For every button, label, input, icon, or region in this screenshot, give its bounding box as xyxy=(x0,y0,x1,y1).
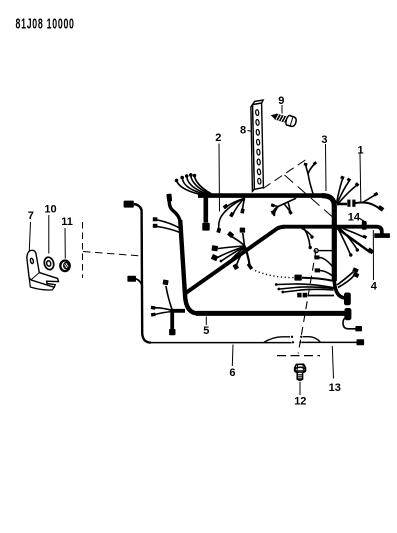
slotted strap 8 xyxy=(251,100,264,191)
two arc wires to stacked connectors right of vertical xyxy=(337,272,354,286)
arrow 14 xyxy=(360,219,365,223)
connector on second bar (14) xyxy=(362,221,367,230)
dash-dot vertical near parts xyxy=(82,222,84,278)
diagonal harness branch xyxy=(185,227,285,294)
bottom thin wire (6 / 13) xyxy=(150,341,357,343)
fan F8 below second bar xyxy=(338,229,371,254)
svg-text:10: 10 xyxy=(44,204,56,216)
fan F1 at left end of top bar xyxy=(177,176,211,195)
tab wire 2 left of vertical xyxy=(320,271,333,277)
connector at harness end (4) xyxy=(344,293,351,306)
two stub wires into left vertical xyxy=(158,220,182,229)
svg-text:81J08 10000: 81J08 10000 xyxy=(16,15,75,32)
dot fan under second bar left of vertical xyxy=(302,229,312,237)
label 13 xyxy=(332,346,333,379)
tab wire 1 left of vertical xyxy=(319,258,333,267)
bracket 7 xyxy=(27,250,59,290)
three thin wires left of vertical base xyxy=(278,284,334,288)
dashed line B down to harness xyxy=(285,175,333,217)
fan F4 at top right corner xyxy=(337,180,357,205)
leader 8 xyxy=(248,131,253,132)
label 12 xyxy=(299,382,301,395)
svg-text:7: 7 xyxy=(28,210,34,222)
leader 2 xyxy=(218,144,221,212)
svg-text:4: 4 xyxy=(371,280,378,292)
dotted curve xyxy=(254,270,294,278)
connector at right end of wire 13 xyxy=(357,339,365,345)
dashed line A bracket to harness xyxy=(263,158,309,189)
svg-text:11: 11 xyxy=(61,216,73,228)
fan F5 on diagonal branch xyxy=(218,234,246,266)
svg-text:3: 3 xyxy=(321,134,327,146)
left vertical branch down to lower bar xyxy=(180,220,198,313)
curve into connector 4 xyxy=(334,278,346,298)
curve from junction to dotted wire xyxy=(245,247,250,267)
T terminal at bar end xyxy=(374,233,390,238)
svg-text:12: 12 xyxy=(294,396,306,408)
washer 10 xyxy=(43,256,55,270)
corner and right vertical of main harness xyxy=(322,196,334,281)
bolt 12 xyxy=(295,364,306,380)
drop wire and connector below top bar left end xyxy=(204,197,209,223)
ring terminal wire left of vertical xyxy=(319,250,335,252)
small fan F4b rising from top bar xyxy=(306,164,315,194)
dash horizontal to harness xyxy=(83,252,142,257)
fan F2 under top bar xyxy=(219,199,245,230)
dash row above bolt xyxy=(277,355,320,357)
svg-text:1: 1 xyxy=(358,144,364,156)
connector feeding harness branch (2) xyxy=(166,194,172,202)
wire from dotted curve into vertical xyxy=(302,278,334,281)
leader 3 xyxy=(325,144,328,191)
svg-text:5: 5 xyxy=(203,325,209,337)
small wire from lower-bar connector xyxy=(343,318,356,329)
svg-text:13: 13 xyxy=(329,382,341,394)
leader 9 xyxy=(281,105,283,114)
dashed leader from hump to bolt 12 xyxy=(298,250,316,354)
fan F6 at lower-left stub xyxy=(172,311,185,329)
wire with inline connector (1) xyxy=(337,203,347,206)
lower bar (5) xyxy=(196,311,345,316)
connector wire joining loop at left xyxy=(127,276,136,282)
nut 11 xyxy=(60,261,69,272)
hump over bottom wire xyxy=(264,337,321,343)
double connector wire into vertical base xyxy=(308,295,334,297)
wire from connector down to left vertical xyxy=(169,201,180,222)
label 6 xyxy=(231,345,234,367)
leader 4 xyxy=(372,230,374,280)
connector at lower bar end xyxy=(344,308,351,320)
leader 1 xyxy=(359,154,362,202)
screw 9 xyxy=(269,110,297,127)
svg-text:8: 8 xyxy=(240,125,246,137)
second bar (engine side) xyxy=(283,227,382,234)
svg-text:6: 6 xyxy=(229,367,235,379)
svg-text:14: 14 xyxy=(348,211,361,223)
svg-text:2: 2 xyxy=(215,132,221,144)
connector bar on curve from junction xyxy=(247,263,253,270)
main bar top (engine harness) xyxy=(198,193,322,198)
fan F3 under top bar right xyxy=(273,199,296,215)
connector and long thin wire (item 6 loop left) xyxy=(124,201,134,208)
svg-text:9: 9 xyxy=(278,95,284,107)
label 5 xyxy=(205,317,207,326)
header part number 81J08 10000 xyxy=(16,15,75,32)
